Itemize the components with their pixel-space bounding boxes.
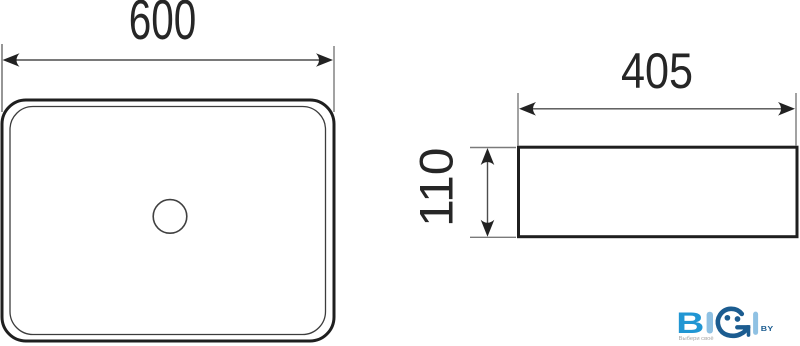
drain hole — [153, 200, 187, 234]
top view: basin outer outline — [2, 100, 334, 341]
svg-text:110: 110 — [410, 148, 463, 227]
dim 110: top extension line — [470, 147, 516, 149]
dim 110: bottom extension line — [470, 236, 516, 238]
dim 600: right extension line — [333, 46, 335, 112]
dim 405: right extension line — [795, 93, 797, 146]
dim 600: right arrowhead — [316, 53, 333, 67]
top view: basin inner rim — [10, 107, 326, 335]
logo: letter G crossbar — [737, 325, 748, 329]
logo: second letter I bar — [753, 312, 758, 335]
svg-text:600: 600 — [129, 0, 197, 51]
logo: right eye — [735, 316, 741, 322]
dim 405: left extension line — [517, 93, 519, 146]
svg-text:Выбери своё: Выбери своё — [679, 336, 714, 342]
logo: letter G ring — [718, 309, 746, 336]
dim 110: dimension line — [487, 151, 489, 234]
dim 405: left arrowhead — [519, 102, 536, 116]
dim 405: right arrowhead — [778, 102, 795, 116]
dim 405: dimension line — [522, 108, 792, 110]
svg-text:BY: BY — [761, 324, 774, 332]
dim 110: top arrowhead — [481, 148, 495, 165]
dim 110: bottom arrowhead — [481, 220, 495, 237]
dim 600: left extension line — [1, 44, 3, 112]
logo: letter G down stroke — [747, 325, 751, 337]
logo: left eye — [725, 315, 731, 321]
logo: first letter I bar — [707, 312, 713, 334]
svg-text:405: 405 — [621, 43, 693, 99]
dim 600: dimension line — [6, 59, 330, 61]
dim 600: left arrowhead — [3, 53, 20, 67]
side view: basin body — [519, 147, 798, 237]
